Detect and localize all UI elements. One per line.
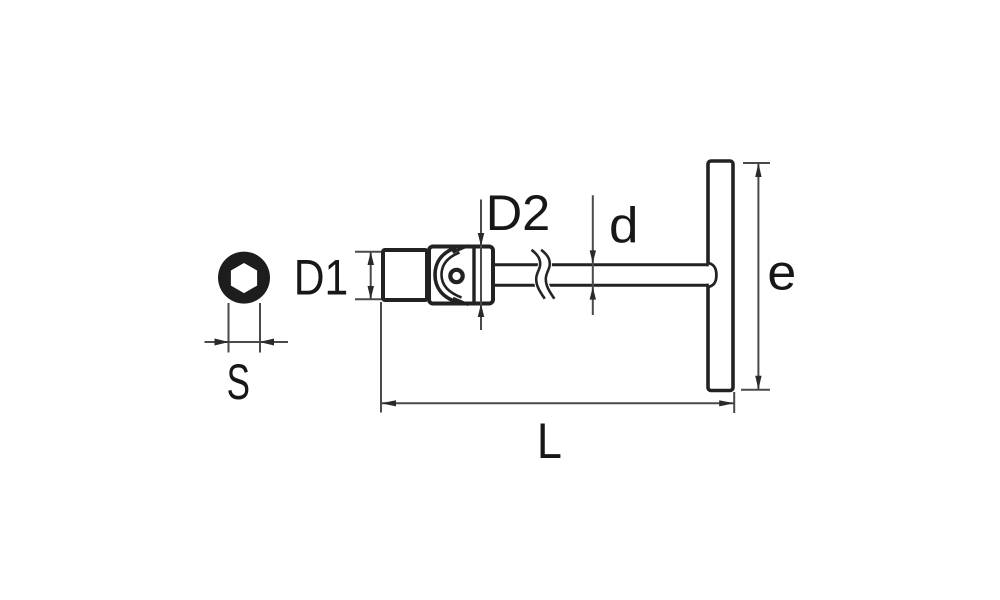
svg-text:d: d (609, 197, 638, 253)
svg-text:D2: D2 (486, 185, 551, 241)
svg-text:S: S (227, 355, 250, 411)
svg-text:e: e (767, 244, 796, 300)
svg-text:L: L (537, 414, 562, 470)
svg-text:D1: D1 (294, 249, 349, 305)
